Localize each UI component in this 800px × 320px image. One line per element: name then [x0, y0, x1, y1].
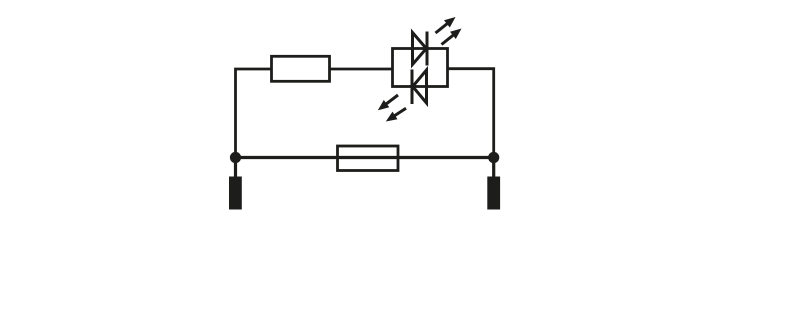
- LED D2 emission arrow 2: [386, 108, 406, 121]
- wire stub node A to terminal 1: [234, 158, 237, 178]
- wire stub node B to terminal 2: [492, 158, 495, 178]
- node A junction dot: [230, 152, 241, 163]
- LED D1 (top, anode left, pointing right): [413, 32, 428, 66]
- terminal 1 pad: [229, 177, 242, 210]
- fuse F1: [338, 146, 399, 171]
- LED D1 emission arrow 2: [442, 29, 462, 45]
- node B junction dot: [488, 152, 499, 163]
- wire bottom rail node A to node B (through fuse): [236, 156, 494, 159]
- wire LED block to right branch: right and down to node B: [448, 69, 494, 158]
- LED D2 (bottom, anode right, pointing left): [412, 70, 427, 105]
- wire left branch: top-left corner from node A up and right to resistor: [236, 69, 272, 158]
- wire resistor to LED block: [330, 68, 393, 71]
- LED D1 emission arrow 1: [436, 17, 456, 33]
- resistor R1: [272, 56, 330, 81]
- terminal 2 pad: [487, 177, 500, 210]
- LED block outline (anti-parallel LED pair housing): [393, 49, 448, 87]
- LED D2 emission arrow 1: [378, 95, 398, 110]
